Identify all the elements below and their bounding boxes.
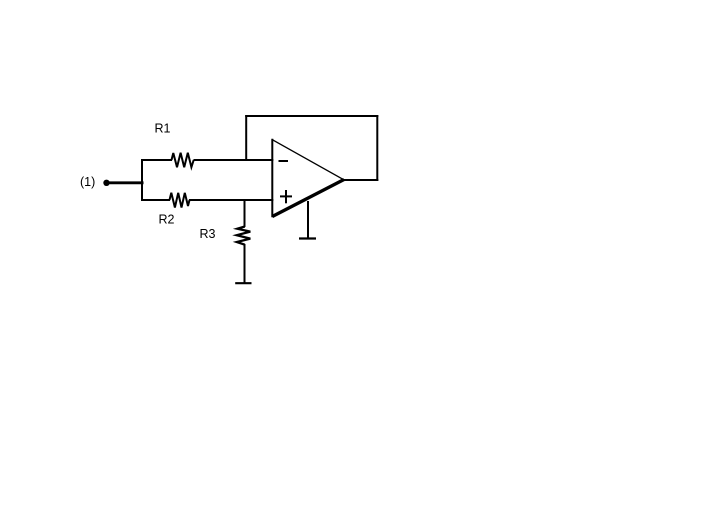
feedback wire top horizontal [245, 115, 378, 117]
ground below op-amp [299, 237, 316, 239]
op-amp U1 [272, 139, 344, 217]
ground below R3 [235, 282, 251, 284]
wire top branch right segment to op-amp inverting input [194, 159, 274, 161]
wire R3 top stem [244, 199, 246, 227]
node (1) dot [103, 180, 109, 186]
feedback wire left vertical [245, 115, 247, 161]
resistor R1 [172, 153, 194, 168]
svg-text:R2: R2 [159, 213, 175, 227]
wire R3 bottom stem [244, 244, 246, 283]
wire top branch left segment [141, 159, 172, 161]
feedback wire right vertical [376, 115, 378, 181]
op-amp non-inverting input plus sign [280, 190, 292, 203]
wire vertical split junction [141, 159, 143, 201]
svg-text:R1: R1 [155, 122, 171, 136]
wire bottom branch left segment [141, 199, 170, 201]
wire input from node (1) to split junction [107, 181, 144, 184]
op-amp inverting input minus sign [279, 160, 289, 162]
wire bottom branch right segment to op-amp non-inverting input [189, 199, 273, 201]
wire ground stem below op-amp [307, 201, 309, 239]
svg-text:R3: R3 [200, 227, 216, 241]
wire op-amp output [342, 179, 379, 181]
resistor R3 [237, 227, 251, 245]
svg-text:(1): (1) [80, 175, 95, 189]
resistor R2 [170, 193, 190, 208]
